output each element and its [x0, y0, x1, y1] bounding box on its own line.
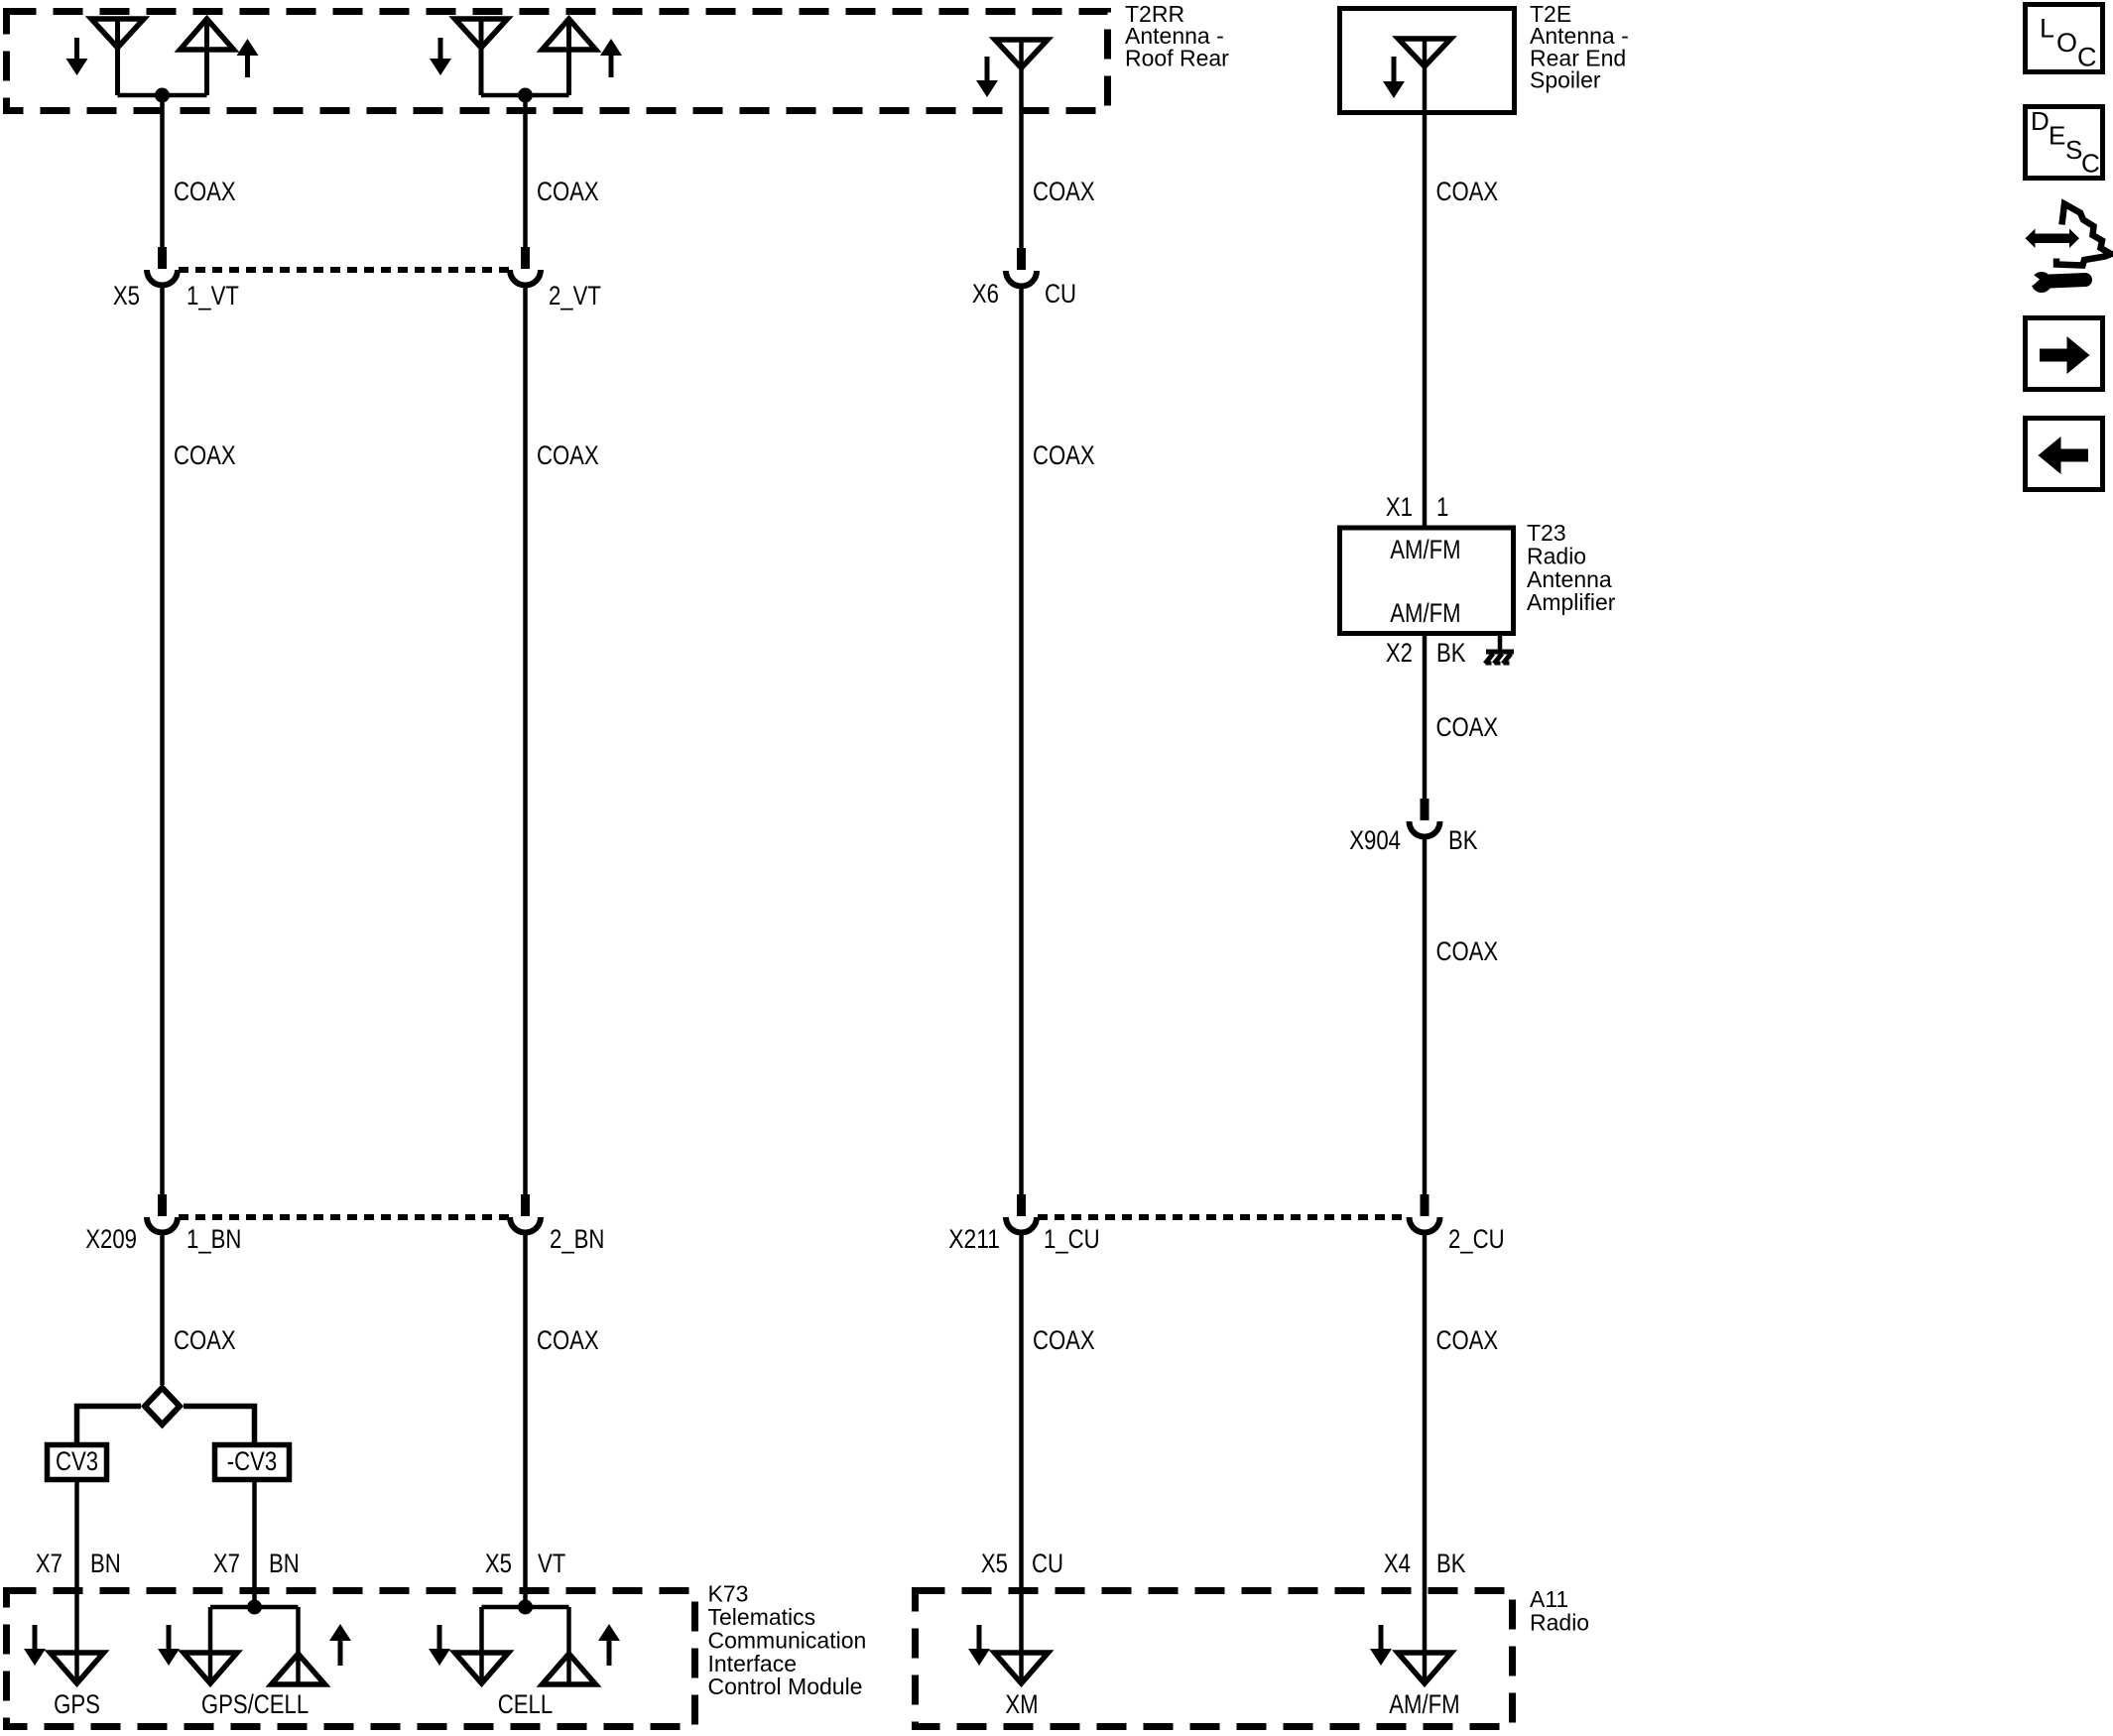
icon box next (right arrow)	[2026, 318, 2103, 390]
svg-text:X6: X6	[972, 279, 999, 309]
wire: CELL RX branch	[479, 1607, 484, 1683]
wire W3: X211 to XM antenna	[1019, 1233, 1024, 1684]
svg-text:1_CU: 1_CU	[1044, 1224, 1100, 1254]
svg-text:1_BN: 1_BN	[186, 1224, 241, 1254]
svg-text:E: E	[2049, 121, 2065, 151]
antenna CELL TX (K73)	[543, 1654, 596, 1684]
connector X5 cavity 2 (W2)	[510, 247, 541, 285]
connector X211 cavity 1 (W3)	[1006, 1194, 1037, 1232]
label COAX (W2 row3)	[537, 1325, 599, 1355]
wire: CELL tie bar	[482, 1605, 569, 1610]
antenna CELL RX (K73)	[455, 1653, 509, 1683]
svg-text:Radio: Radio	[1530, 1609, 1589, 1635]
svg-text:COAX: COAX	[1436, 177, 1499, 206]
svg-text:COAX: COAX	[1033, 1325, 1095, 1355]
label X6	[972, 279, 999, 309]
arrow up (group1)	[237, 39, 259, 77]
label X211	[948, 1224, 1000, 1254]
svg-text:BN: BN	[269, 1549, 300, 1578]
label pin 1	[1436, 492, 1448, 522]
wire W1: X209 to splice	[160, 1233, 165, 1386]
clip -CV3	[215, 1445, 290, 1480]
label BK (radio AM/FM)	[1436, 1549, 1466, 1578]
wire: GPS/CELL RX branch	[208, 1607, 213, 1683]
wire W4: T2E antenna to T23	[1423, 39, 1428, 527]
arrow down (group3)	[976, 57, 998, 97]
label COAX (W1 row3)	[174, 1325, 236, 1355]
svg-text:Interface: Interface	[708, 1651, 798, 1676]
svg-text:XM: XM	[1005, 1689, 1038, 1719]
label 2_BN	[550, 1224, 604, 1254]
wire: splice tie bar	[77, 1407, 255, 1443]
wire W3: X6 to X211	[1019, 287, 1024, 1195]
label COAX (W2 row2)	[537, 440, 599, 470]
wire: T23 ground stem	[1498, 634, 1503, 652]
svg-text:X5: X5	[113, 281, 140, 310]
svg-text:COAX: COAX	[174, 177, 236, 206]
label COAX (W2 row1)	[537, 177, 599, 206]
arrow down (group2)	[430, 38, 451, 75]
svg-text:X904: X904	[1349, 825, 1401, 855]
label A11 Radio	[1530, 1586, 1589, 1635]
svg-text:Antenna: Antenna	[1527, 566, 1612, 592]
icon box previous (left arrow)	[2026, 419, 2103, 490]
connector X904 (W4)	[1410, 799, 1440, 837]
antenna GPS (K73)	[51, 1653, 104, 1683]
label BN (GPS/CELL)	[269, 1549, 300, 1578]
svg-text:COAX: COAX	[537, 440, 599, 470]
svg-text:CV3: CV3	[56, 1446, 98, 1476]
svg-text:BK: BK	[1436, 638, 1466, 668]
svg-text:COAX: COAX	[1033, 177, 1095, 206]
arrow down (T2E)	[1383, 57, 1405, 98]
svg-text:COAX: COAX	[537, 1325, 599, 1355]
svg-text:COAX: COAX	[174, 440, 236, 470]
connector tie (X5 dotted)	[179, 267, 510, 273]
wire W1: junction to X5 pin	[160, 95, 165, 248]
svg-text:BN: BN	[90, 1549, 121, 1578]
svg-text:K73: K73	[708, 1581, 749, 1607]
svg-text:X2: X2	[1386, 638, 1413, 668]
label COAX (W4 row2)	[1436, 712, 1499, 742]
antenna RX symbol (group3)	[995, 40, 1048, 68]
svg-text:D: D	[2031, 106, 2050, 136]
arrow up (GPS/CELL)	[329, 1624, 351, 1666]
label 1_CU	[1044, 1224, 1100, 1254]
svg-text:C: C	[2077, 43, 2097, 72]
connector X6 (W3)	[1006, 248, 1037, 287]
antenna RX symbol (group2)	[455, 19, 508, 95]
arrow down (XM)	[968, 1625, 990, 1666]
svg-text:COAX: COAX	[1436, 936, 1499, 966]
svg-text:AM/FM: AM/FM	[1389, 1689, 1459, 1719]
label X209	[85, 1224, 137, 1254]
svg-text:COAX: COAX	[1436, 712, 1499, 742]
label 2_CU	[1448, 1224, 1505, 1254]
label GPS	[54, 1689, 100, 1719]
component box T2RR Antenna - Roof Rear (dashed)	[7, 12, 1108, 111]
svg-text:1_VT: 1_VT	[186, 281, 239, 310]
svg-text:AM/FM: AM/FM	[1390, 598, 1460, 628]
label X5 (CELL)	[485, 1549, 512, 1578]
label COAX (W1 row1)	[174, 177, 236, 206]
connector X209 cavity 2 (W2)	[510, 1194, 541, 1232]
connector tie (X211 dotted)	[1038, 1214, 1409, 1220]
wire W2: X5 to X209	[523, 286, 528, 1195]
label T2RR Antenna - Roof Rear	[1125, 1, 1229, 70]
label COAX (W3 row1)	[1033, 177, 1095, 206]
label T2E Antenna - Rear End Spoiler	[1530, 1, 1629, 93]
wire W4: X904 to X211	[1423, 837, 1428, 1195]
component box A11 Radio (dashed)	[916, 1591, 1513, 1727]
svg-text:2_BN: 2_BN	[550, 1224, 604, 1254]
arrow up (CELL)	[598, 1624, 620, 1666]
label K73 Telematics Communication Interface Control Module	[708, 1581, 867, 1700]
svg-text:A11: A11	[1530, 1586, 1568, 1612]
icon box LOC	[2026, 5, 2103, 72]
label COAX (W4 row1)	[1436, 177, 1499, 206]
wire: -CV3 to GPS/CELL junction	[252, 1482, 257, 1607]
antenna GPS/CELL TX (K73)	[272, 1654, 325, 1684]
label CELL	[498, 1689, 553, 1719]
svg-text:CELL: CELL	[498, 1689, 553, 1719]
svg-text:Communication: Communication	[708, 1627, 867, 1653]
svg-text:Radio: Radio	[1527, 543, 1586, 568]
connector X5 cavity 1 (W1)	[147, 247, 178, 285]
svg-text:L: L	[2040, 14, 2054, 44]
node: CELL junction dot	[518, 1600, 533, 1615]
label AM/FM (T23 in)	[1390, 535, 1460, 564]
svg-text:X209: X209	[85, 1224, 137, 1254]
label COAX (W3 row3)	[1033, 1325, 1095, 1355]
wire: CELL TX branch	[566, 1607, 571, 1684]
label X5 (radio XM)	[981, 1549, 1008, 1578]
node: GPS/CELL junction dot	[247, 1600, 262, 1615]
svg-text:COAX: COAX	[174, 1325, 236, 1355]
arrow down (GPS/CELL)	[158, 1625, 180, 1666]
splice diamond	[145, 1388, 180, 1425]
icon box DESC	[2026, 106, 2103, 179]
wire W2: X209 to CELL junction	[523, 1233, 528, 1608]
label COAX (W3 row2)	[1033, 440, 1095, 470]
svg-text:Amplifier: Amplifier	[1527, 589, 1616, 615]
arrow down (CELL)	[429, 1625, 450, 1666]
label AM/FM (T23 out)	[1390, 598, 1460, 628]
arrow up (group2)	[600, 39, 622, 77]
svg-text:Control Module: Control Module	[708, 1674, 863, 1699]
antenna GPS/CELL RX (K73)	[184, 1653, 237, 1683]
wire: CV3 to GPS antenna	[74, 1482, 79, 1683]
antenna TX symbol (group2)	[543, 19, 596, 95]
label X5	[113, 281, 140, 310]
svg-text:CU: CU	[1045, 279, 1076, 309]
label COAX (W1 row2)	[174, 440, 236, 470]
svg-text:X211: X211	[948, 1224, 1000, 1254]
wire: group2 antenna tie bar	[481, 93, 569, 98]
svg-text:COAX: COAX	[1436, 1325, 1499, 1355]
arrow down (AM/FM)	[1370, 1625, 1392, 1666]
component box T23 Radio Antenna Amplifier	[1340, 528, 1514, 634]
svg-text:X4: X4	[1384, 1549, 1411, 1578]
svg-text:S: S	[2065, 135, 2082, 165]
label BN (GPS)	[90, 1549, 121, 1578]
svg-text:C: C	[2081, 149, 2100, 179]
svg-text:VT: VT	[538, 1549, 565, 1578]
connector X209 cavity 1 (W1)	[147, 1194, 178, 1232]
antenna AM/FM (A11)	[1398, 1653, 1451, 1683]
wire W2: junction to X5 pin	[523, 95, 528, 248]
antenna RX symbol (T2E)	[1399, 39, 1451, 66]
label CU (X6)	[1045, 279, 1076, 309]
svg-text:Telematics: Telematics	[708, 1604, 816, 1630]
wire W4: T23 to X904	[1423, 634, 1428, 799]
label COAX (W4 row4)	[1436, 1325, 1499, 1355]
svg-text:Spoiler: Spoiler	[1530, 67, 1601, 93]
wire W3: antenna to X6 pin	[1019, 40, 1024, 248]
label X2	[1386, 638, 1413, 668]
svg-text:O: O	[2056, 28, 2077, 58]
label BK (X2)	[1436, 638, 1466, 668]
svg-text:Roof Rear: Roof Rear	[1125, 45, 1229, 70]
node: group2 junction dot	[518, 88, 533, 103]
antenna XM (A11)	[995, 1653, 1049, 1683]
clip CV3	[48, 1445, 107, 1480]
svg-text:GPS/CELL: GPS/CELL	[201, 1689, 309, 1719]
wire W4: X211 to AM/FM antenna	[1423, 1233, 1428, 1684]
connector X211 cavity 2 (W4)	[1410, 1194, 1440, 1232]
arrow down (group1)	[66, 38, 88, 75]
arrow down (GPS)	[24, 1625, 46, 1666]
component box K73 Telematics Communication Interface Control Module (dashed)	[7, 1591, 695, 1727]
wire: GPS/CELL tie bar	[210, 1605, 299, 1610]
antenna TX symbol (group1)	[181, 19, 234, 95]
label 1_VT	[186, 281, 239, 310]
node: group1 junction dot	[155, 88, 170, 103]
label BK (X904)	[1448, 825, 1478, 855]
svg-text:2_VT: 2_VT	[549, 281, 601, 310]
svg-text:BK: BK	[1436, 1549, 1466, 1578]
label 2_VT	[549, 281, 601, 310]
wire: GPS/CELL TX branch	[296, 1607, 301, 1684]
label GPS/CELL	[201, 1689, 309, 1719]
icon harness-routing (double arrow, panel outline, wrench)	[2026, 204, 2112, 294]
wire W1: X5 to X209	[160, 286, 165, 1195]
label 1_BN	[186, 1224, 241, 1254]
svg-text:T23: T23	[1527, 520, 1566, 546]
label X904	[1349, 825, 1401, 855]
svg-text:-CV3: -CV3	[227, 1446, 277, 1476]
svg-text:COAX: COAX	[1033, 440, 1095, 470]
svg-text:AM/FM: AM/FM	[1390, 535, 1460, 564]
svg-text:X1: X1	[1386, 492, 1413, 522]
svg-text:X5: X5	[485, 1549, 512, 1578]
label CU (radio XM)	[1032, 1549, 1063, 1578]
ground (T23 chassis ground)	[1485, 652, 1514, 664]
label VT (CELL)	[538, 1549, 565, 1578]
svg-text:GPS: GPS	[54, 1689, 100, 1719]
antenna RX symbol (group1)	[91, 19, 144, 95]
svg-text:COAX: COAX	[537, 177, 599, 206]
component box T2E Antenna - Rear End Spoiler	[1340, 9, 1515, 113]
svg-text:X5: X5	[981, 1549, 1008, 1578]
label T23 Radio Antenna Amplifier	[1527, 520, 1616, 615]
svg-text:X7: X7	[36, 1549, 62, 1578]
svg-text:1: 1	[1436, 492, 1448, 522]
label X7 (GPS)	[36, 1549, 62, 1578]
svg-text:CU: CU	[1032, 1549, 1063, 1578]
svg-text:X7: X7	[213, 1549, 240, 1578]
wire: group1 antenna tie bar	[118, 93, 207, 98]
label X7 (GPS/CELL)	[213, 1549, 240, 1578]
label AM/FM (A11)	[1389, 1689, 1459, 1719]
label X1	[1386, 492, 1413, 522]
label XM	[1005, 1689, 1038, 1719]
svg-text:BK: BK	[1448, 825, 1478, 855]
label X4 (radio AM/FM)	[1384, 1549, 1411, 1578]
connector tie (X209 dotted)	[179, 1214, 510, 1220]
label COAX (W4 row3)	[1436, 936, 1499, 966]
svg-text:2_CU: 2_CU	[1448, 1224, 1505, 1254]
